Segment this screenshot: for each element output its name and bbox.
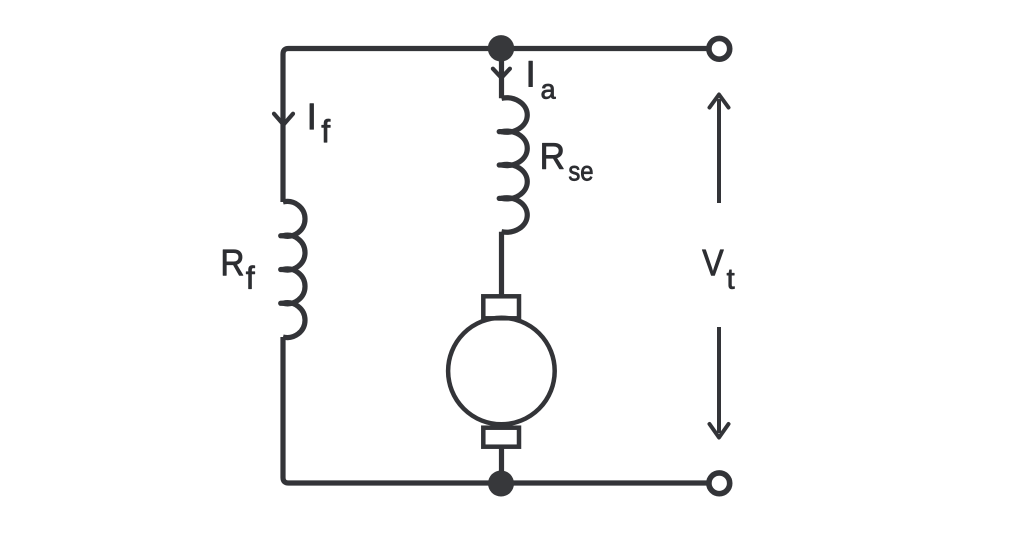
inductor Rf (field winding coil) — [283, 201, 305, 337]
motor armature M (circle) — [448, 318, 555, 425]
motor brush top (rectangle) — [483, 296, 519, 318]
node junction dot bottom — [488, 471, 514, 497]
coil Rf connection nub 1 — [281, 233, 286, 238]
terminal bottom-right (open circle) — [709, 473, 730, 494]
motor brush bottom (rectangle) — [483, 428, 519, 447]
wire bottom-left L (left branch down + bottom rail) — [283, 337, 710, 483]
label Rse — [542, 143, 563, 168]
coil Rse connection nub 2 — [499, 162, 504, 167]
arrow Ia (current arrowhead on middle branch) — [493, 69, 510, 78]
wire motor to bottom rail — [499, 447, 504, 483]
label Rf — [223, 250, 243, 275]
terminal top-right (open circle) — [709, 38, 730, 59]
arrow Vt up (plus terminal voltage arrow) — [717, 99, 721, 203]
arrow If (current arrowhead on left branch) — [274, 114, 293, 125]
node junction dot top — [488, 35, 514, 61]
wire middle branch upper segment — [499, 49, 504, 99]
coil Rf connection nub 3 — [281, 301, 286, 306]
label Ia — [529, 61, 532, 86]
label If — [310, 104, 313, 129]
coil Rf connection nub 2 — [281, 267, 286, 272]
coil Rse connection nub 1 — [499, 129, 504, 134]
wire middle branch to motor — [499, 232, 504, 296]
arrow Vt down (minus terminal voltage arrow) — [717, 327, 721, 433]
coil Rse connection nub 3 — [499, 196, 504, 201]
label Vt — [702, 250, 723, 275]
inductor Rse (series winding coil) — [502, 98, 528, 232]
wire top-left L (left branch up + top rail) — [283, 49, 710, 203]
